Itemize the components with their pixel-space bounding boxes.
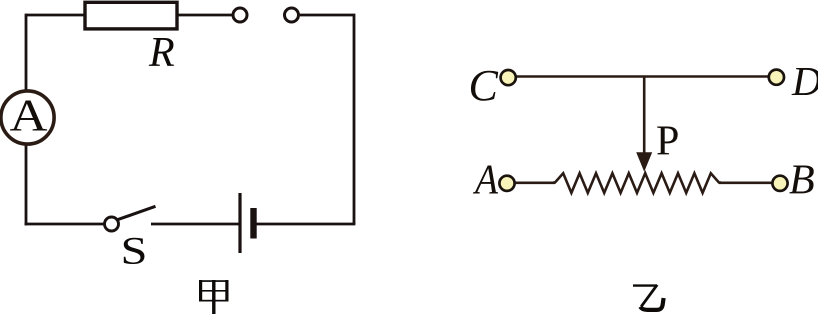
- wiper arrowhead P: [636, 152, 652, 172]
- terminal (open) right of gap: [285, 8, 299, 22]
- svg-text:D: D: [791, 58, 818, 104]
- wire resistance element to B: [719, 182, 772, 185]
- terminal C: [501, 70, 516, 85]
- wire A to resistance element: [515, 182, 555, 185]
- battery positive plate (long): [238, 193, 241, 253]
- svg-text:A: A: [10, 90, 48, 141]
- resistor R body: [85, 2, 177, 29]
- wire bottom-left horizontal: [25, 223, 104, 226]
- wire top-left horizontal: [26, 14, 85, 17]
- figure label 甲: [199, 280, 229, 314]
- wire C to D (top): [517, 75, 769, 78]
- wire left vertical upper: [25, 14, 28, 90]
- wire battery to bottom-right: [257, 223, 356, 226]
- wire resistor to terminal: [177, 14, 232, 17]
- svg-text:P: P: [656, 119, 679, 165]
- terminal D: [769, 70, 784, 85]
- svg-text:R: R: [148, 30, 175, 76]
- svg-text:C: C: [469, 61, 499, 110]
- wire terminal2 to top-right corner and down: [300, 15, 354, 224]
- switch S pivot: [105, 217, 119, 231]
- switch S lever: [118, 206, 156, 219]
- wire left vertical lower: [25, 145, 28, 225]
- wiper stem: [643, 77, 646, 155]
- terminal (open) left of gap: [233, 8, 247, 22]
- svg-text:B: B: [789, 157, 815, 203]
- figure label 乙: [633, 285, 664, 310]
- wire switch to battery: [151, 223, 239, 226]
- terminal A: [499, 176, 514, 191]
- svg-text:A: A: [472, 157, 498, 203]
- ammeter A1 body: [1, 91, 54, 144]
- resistance element zigzag: [553, 173, 721, 193]
- terminal B: [772, 176, 787, 191]
- svg-text:S: S: [121, 230, 148, 273]
- battery negative plate (short thick): [250, 208, 256, 239]
